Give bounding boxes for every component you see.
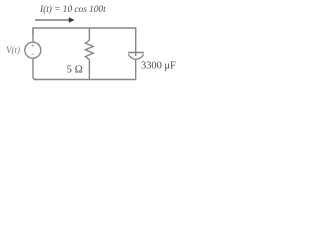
voltage source V1 circle: [25, 42, 41, 58]
resistor R1 bottom lead: [88, 60, 90, 80]
svg-text:3300 μF: 3300 μF: [141, 61, 176, 72]
capacitor C1 top plate: [128, 52, 144, 54]
svg-text:V(t): V(t): [6, 45, 20, 55]
wire left from source to bottom: [33, 58, 36, 79]
capacitor C1 top lead: [135, 28, 137, 56]
resistor R1 top lead: [88, 28, 90, 40]
wire bottom: [34, 79, 136, 81]
resistor R1 zigzag: [85, 40, 93, 59]
svg-text:5 Ω: 5 Ω: [67, 63, 83, 75]
wire source top lead: [32, 28, 34, 42]
capacitor C1 bottom lead: [135, 59, 137, 79]
wire top: [33, 28, 136, 34]
svg-text:I(t) = 10 cos 100t: I(t) = 10 cos 100t: [39, 4, 106, 15]
source minus sign: [31, 54, 34, 56]
current direction arrow: [35, 17, 75, 23]
source plus sign: [31, 44, 34, 47]
capacitor C1 curved bottom plate: [128, 54, 143, 59]
